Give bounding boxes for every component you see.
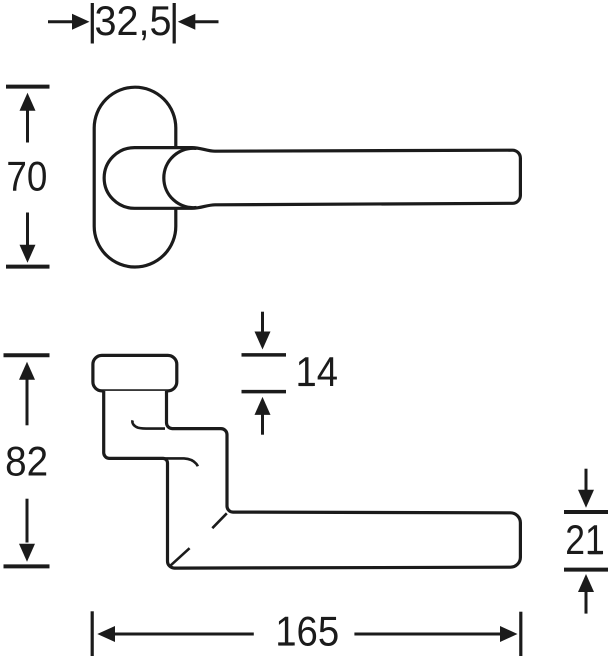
svg-text:165: 165 [275,608,339,655]
svg-text:82: 82 [5,438,48,485]
svg-text:21: 21 [565,516,605,563]
svg-text:32,5: 32,5 [95,0,172,44]
svg-text:70: 70 [6,152,47,199]
svg-text:14: 14 [296,348,339,395]
